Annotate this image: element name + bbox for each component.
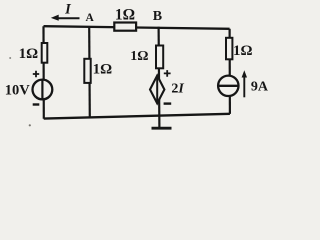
svg-text:2I: 2I bbox=[171, 82, 184, 97]
wire right branch bbox=[229, 29, 231, 114]
wire top bus A-B bbox=[44, 26, 230, 29]
resistor R3 1ohm horizontal A-B bbox=[114, 23, 136, 31]
wire middle branch bbox=[88, 27, 91, 119]
current arrow I bbox=[56, 17, 80, 19]
ground bbox=[152, 127, 172, 130]
current source I1 9A circle bbox=[218, 76, 238, 96]
plus sign of dependent source bbox=[164, 70, 171, 77]
svg-text:1Ω: 1Ω bbox=[19, 46, 39, 62]
voltage source V1 vertical bar bbox=[41, 80, 43, 100]
resistor R2 1ohm middle bbox=[84, 59, 90, 83]
voltage source V1 10V circle bbox=[33, 80, 53, 100]
resistor R4 1ohm B branch bbox=[156, 46, 163, 69]
svg-text:1Ω: 1Ω bbox=[115, 6, 135, 23]
minus sign of dependent source bbox=[164, 102, 172, 104]
dependent source internal bar bbox=[156, 76, 158, 104]
svg-text:A: A bbox=[86, 12, 95, 24]
resistor R1 1ohm left bbox=[42, 43, 48, 63]
wire B branch with ground stub bbox=[158, 27, 161, 129]
svg-text:I: I bbox=[64, 2, 72, 18]
wire bottom bus bbox=[44, 114, 230, 119]
svg-text:B: B bbox=[153, 9, 162, 24]
dependent source D1 diamond bbox=[150, 76, 164, 104]
svg-text:10V: 10V bbox=[5, 82, 31, 98]
current source I1 horizontal bar bbox=[218, 85, 238, 87]
svg-text:1Ω: 1Ω bbox=[130, 49, 148, 64]
svg-text:9A: 9A bbox=[251, 80, 269, 95]
svg-text:1Ω: 1Ω bbox=[93, 61, 113, 77]
resistor R5 1ohm right bbox=[226, 38, 232, 60]
svg-text:1Ω: 1Ω bbox=[233, 43, 253, 59]
wire left branch bbox=[42, 26, 44, 119]
arrow of 9A source bbox=[243, 76, 245, 98]
minus sign of V1 bbox=[33, 103, 40, 105]
plus sign of V1 bbox=[33, 71, 39, 77]
